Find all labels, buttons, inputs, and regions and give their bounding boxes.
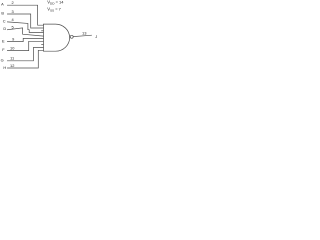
gate input stub bbox=[42, 30, 44, 32]
svg-text:2: 2 bbox=[12, 0, 14, 5]
svg-text:G: G bbox=[1, 57, 4, 62]
svg-text:J: J bbox=[95, 34, 97, 39]
svg-text:5: 5 bbox=[12, 25, 14, 30]
wire C bbox=[7, 22, 43, 33]
svg-text:13: 13 bbox=[82, 30, 87, 35]
svg-text:A: A bbox=[1, 2, 4, 7]
gate input stub bbox=[42, 44, 44, 46]
output bubble bbox=[70, 35, 73, 38]
wire A bbox=[7, 5, 43, 25]
output wire pin 13 bbox=[73, 35, 91, 36]
wire G bbox=[7, 48, 43, 61]
NAND gate U1 body bbox=[43, 24, 69, 51]
svg-text:E: E bbox=[2, 38, 5, 43]
svg-text:H: H bbox=[3, 65, 6, 70]
svg-text:D: D bbox=[3, 26, 6, 31]
svg-text:C: C bbox=[3, 19, 6, 24]
svg-text:9: 9 bbox=[12, 37, 14, 42]
svg-text:12: 12 bbox=[10, 63, 14, 68]
svg-text:B: B bbox=[1, 10, 4, 15]
wire H bbox=[7, 50, 43, 68]
wire E bbox=[7, 38, 43, 41]
wire D bbox=[7, 28, 43, 36]
svg-text:11: 11 bbox=[10, 55, 14, 60]
wire F bbox=[7, 41, 43, 50]
wire B bbox=[7, 14, 43, 28]
svg-text:3: 3 bbox=[12, 9, 14, 14]
